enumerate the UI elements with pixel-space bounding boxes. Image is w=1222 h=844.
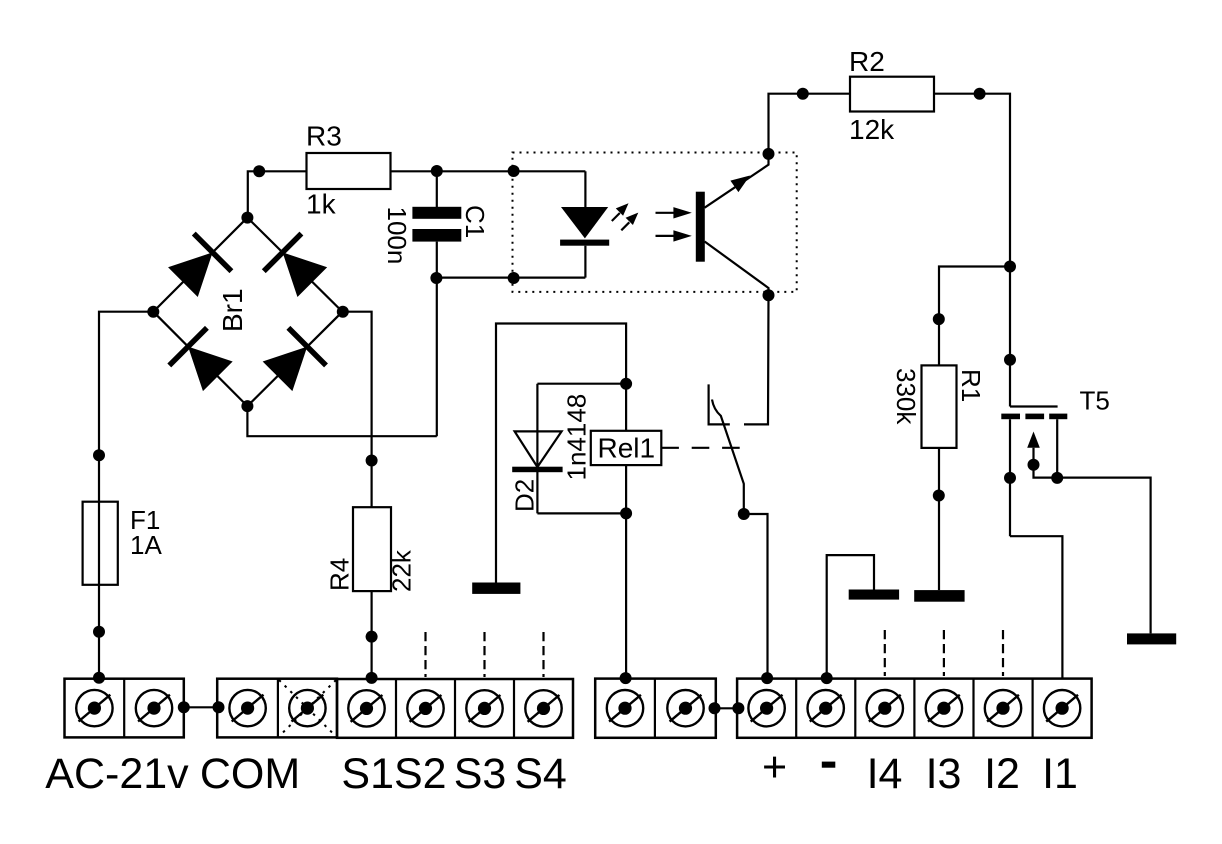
resistor R3: [307, 153, 391, 189]
node dot T5 source: [1051, 472, 1063, 484]
svg-text:S1S2: S1S2: [341, 750, 446, 798]
node dot R4 top: [366, 455, 378, 467]
node dot gate rail branch: [1004, 261, 1016, 273]
light arrow into phototransistor 2: [656, 230, 692, 241]
dashed stub above I4: [884, 630, 886, 676]
switch blade: [712, 400, 744, 515]
node dot R1 top: [933, 313, 945, 325]
svg-text:R2: R2: [849, 46, 885, 77]
node dot R2 left: [797, 88, 809, 100]
wire T5 drain to I1 terminal: [1010, 536, 1062, 678]
svg-text:1n4148: 1n4148: [562, 394, 592, 481]
T5 channel dash right: [1049, 414, 1067, 420]
relay actuation dashed link: [661, 447, 740, 449]
wire opto collector up to R2: [769, 94, 851, 154]
svg-text:Br1: Br1: [217, 288, 248, 332]
dashed stub above S4: [542, 632, 544, 677]
wire bridge bottom to DC- rail: [247, 406, 436, 436]
diode D2 triangle outline: [515, 431, 562, 467]
wire C1 bottom to DC rail: [436, 242, 438, 437]
node dot D2 top: [620, 378, 632, 390]
node dot fuse bottom: [93, 626, 105, 638]
wire D2 bottom branch: [537, 512, 626, 514]
T5 body leg: [1034, 448, 1058, 478]
svg-text:I1: I1: [1042, 750, 1078, 798]
node dot COM block left: [213, 701, 225, 713]
node dot AC terminal top: [93, 672, 105, 684]
ground symbol below R1: [914, 590, 964, 602]
phototransistor body bar: [696, 192, 705, 262]
wire link relay block to output block: [715, 707, 739, 709]
node dot relay block right: [709, 702, 721, 714]
node dot AC block right: [178, 701, 190, 713]
node dot opto box left bottom: [508, 272, 520, 284]
resistor R2: [850, 77, 934, 112]
opto LED cathode bar: [560, 240, 609, 246]
bridge diode bottom-right: [259, 326, 328, 395]
wire D2 top branch: [537, 383, 626, 385]
svg-text:I2: I2: [984, 750, 1020, 798]
opto LED cathode lead: [584, 246, 586, 278]
node dot opto emitter bottom: [763, 289, 775, 301]
T5 source leg: [1056, 419, 1058, 477]
bridge diode bottom-left: [167, 326, 236, 395]
diode D2 cathode bar: [512, 467, 562, 473]
svg-text:1A: 1A: [130, 530, 162, 560]
wire opto emitter down to switch: [744, 295, 769, 424]
node dot C1 top: [431, 165, 443, 177]
LED emission arrow 2: [621, 213, 638, 231]
wire C1 top lead: [436, 171, 438, 207]
wire link AC to COM: [184, 706, 219, 708]
svg-text:1k: 1k: [306, 189, 337, 220]
wire R4 bottom to S1 terminal: [371, 591, 373, 679]
svg-text:I4: I4: [867, 750, 903, 798]
switch fixed contact stub: [709, 384, 730, 424]
node dot fuse top: [93, 449, 105, 461]
svg-text:S4: S4: [514, 750, 567, 798]
node dot bridge bottom: [241, 400, 253, 412]
node dot C1 bottom: [430, 272, 442, 284]
wire D2 vertical: [536, 384, 538, 514]
bridge Br1 diamond wires: [153, 218, 342, 407]
terminal block AC-21v: [65, 679, 184, 738]
node dot plus terminal: [761, 672, 773, 684]
svg-text:Rel1: Rel1: [598, 433, 656, 464]
dashed stub above I2: [1002, 630, 1004, 676]
wire T5 source to ground: [1057, 478, 1150, 634]
opto LED anode lead: [584, 171, 586, 208]
terminal block outputs: [737, 679, 1092, 738]
node dot Rel1 terminal top: [620, 672, 632, 684]
T5 channel dash middle: [1025, 414, 1044, 420]
ground symbol left of relay: [472, 583, 520, 594]
node dot bridge right: [337, 306, 349, 318]
wire bridge right to R4: [343, 312, 372, 508]
bridge diode top-left: [164, 232, 233, 301]
phototransistor emitter line: [705, 242, 769, 296]
svg-text:+: +: [762, 744, 787, 792]
wire bridge left to fuse: [99, 312, 153, 679]
T5 body arrow: [1027, 432, 1040, 448]
svg-text:C1: C1: [460, 205, 490, 238]
fuse F1: [83, 502, 118, 585]
node dot R3 left: [253, 165, 265, 177]
node dot bridge left: [147, 306, 159, 318]
wire branch to R1: [939, 267, 1010, 366]
wire switch to + terminal: [744, 514, 768, 678]
node dot bridge top: [241, 212, 253, 224]
terminal block S1-S4: [337, 679, 573, 738]
svg-text:I3: I3: [926, 750, 962, 798]
relay Rel1 box: [591, 431, 662, 465]
svg-text:R4: R4: [325, 558, 355, 591]
bridge diode top-right: [262, 232, 331, 301]
wire relay ground loop: [496, 324, 626, 583]
svg-text:AC-21v: AC-21v: [45, 750, 189, 798]
opto LED triangle: [561, 207, 608, 238]
LED emission arrow 1: [612, 203, 629, 221]
svg-text:D2: D2: [510, 479, 540, 512]
dashed stub above I3: [943, 630, 945, 676]
wire R3 right to optocoupler LED: [391, 170, 586, 172]
node dot T5 gate rail: [1004, 354, 1016, 366]
dashed stub above S3: [483, 632, 485, 677]
svg-text:330k: 330k: [891, 368, 921, 425]
svg-text:12k: 12k: [849, 114, 895, 145]
transistor T5 gate bar: [1010, 405, 1058, 407]
node dot R4 bottom: [366, 631, 378, 643]
wire minus terminal to ground: [827, 555, 874, 678]
dashed stub above S2: [424, 632, 426, 677]
svg-text:R3: R3: [306, 121, 342, 152]
node dot D2 bottom: [620, 507, 632, 519]
ground symbol at T5 source: [1127, 633, 1176, 644]
ground symbol at minus: [849, 590, 899, 600]
node dot S1 terminal top: [366, 672, 378, 684]
node dot opto collector top: [763, 148, 775, 160]
light arrow into phototransistor 1: [656, 207, 692, 218]
node dot switch bottom: [738, 508, 750, 520]
resistor R4: [353, 507, 391, 591]
phototransistor collector line: [705, 154, 769, 208]
label minus: [822, 762, 836, 768]
svg-text:S3: S3: [454, 750, 507, 798]
resistor R1: [922, 365, 957, 448]
phototransistor collector arrowhead: [730, 176, 750, 193]
svg-text:T5: T5: [1080, 386, 1110, 416]
node dot opto box left top: [508, 165, 520, 177]
svg-text:100n: 100n: [382, 207, 412, 265]
wire R1 bottom to ground: [938, 448, 940, 590]
wire bridge top to R3 left: [248, 171, 307, 217]
node dot output block left: [732, 702, 744, 714]
node dot minus terminal: [821, 672, 833, 684]
wire R2 right to gate rail: [934, 94, 1010, 407]
T5 drain leg: [1009, 419, 1011, 536]
capacitor C1: [412, 207, 461, 242]
terminal block relay contacts: [595, 679, 716, 738]
svg-text:R1: R1: [956, 369, 986, 402]
wire Rel1 bottom to terminal: [625, 465, 627, 678]
T5 channel dash left: [1001, 414, 1020, 420]
svg-text:COM: COM: [200, 750, 300, 798]
svg-text:22k: 22k: [387, 549, 417, 592]
wire opto bottom horizontal: [436, 277, 585, 279]
node dot R2 right: [974, 88, 986, 100]
terminal block COM: [217, 679, 337, 738]
node dot R1 bottom: [933, 490, 945, 502]
optocoupler U1 dotted box: [513, 153, 797, 292]
node dot T5 drain: [1004, 472, 1016, 484]
node dot T5 body: [1028, 459, 1040, 471]
